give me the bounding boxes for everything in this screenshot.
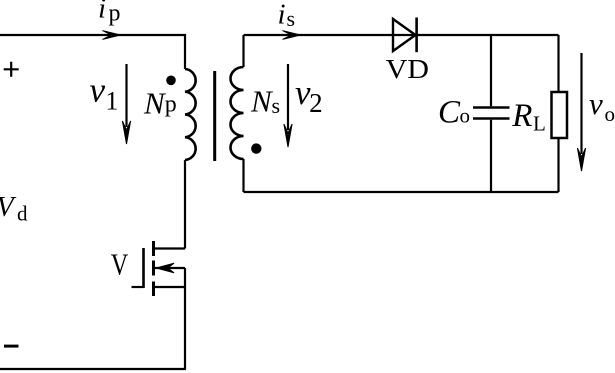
- arrow v_1: [125, 64, 127, 127]
- svg-text:o: o: [460, 103, 471, 127]
- svg-text:o: o: [605, 102, 615, 126]
- wire: bottom input rail: [0, 368, 186, 370]
- svg-text:C: C: [438, 94, 461, 130]
- polarity dot primary: [166, 76, 176, 86]
- wire: load branch upper: [557, 35, 559, 91]
- node - terminal: [4, 345, 19, 348]
- svg-text:i: i: [98, 0, 106, 25]
- wire: primary bottom to MOSFET drain: [184, 160, 186, 249]
- svg-text:VD: VD: [386, 54, 429, 84]
- svg-text:v: v: [90, 71, 106, 110]
- svg-text:L: L: [533, 112, 546, 136]
- diode VD triangle: [393, 19, 416, 51]
- transformer secondary winding Ns: [231, 67, 244, 159]
- MOSFET V body lead: [154, 267, 186, 269]
- wire: capacitor branch lower: [490, 120, 492, 192]
- current arrow i_p: [103, 31, 121, 40]
- svg-text:v: v: [589, 86, 603, 121]
- svg-text:1: 1: [105, 87, 118, 116]
- polarity dot secondary: [251, 143, 261, 153]
- svg-text:2: 2: [309, 88, 323, 118]
- svg-text:R: R: [511, 98, 532, 134]
- MOSFET V body arrow: [156, 263, 174, 273]
- MOSFET V gate lead: [132, 286, 144, 288]
- MOSFET V gate bar: [142, 248, 145, 288]
- arrow v_2: [287, 64, 289, 130]
- svg-text:V: V: [111, 246, 129, 281]
- node + terminal: [4, 62, 19, 77]
- MOSFET V source lead: [154, 286, 186, 288]
- svg-text:N: N: [250, 83, 274, 118]
- capacitor Co plates: [473, 108, 510, 119]
- wire: top input from + terminal to primary: [0, 35, 185, 69]
- MOSFET V channel segment body: [152, 261, 155, 276]
- svg-text:i: i: [278, 0, 286, 31]
- resistor R_L: [552, 92, 568, 138]
- svg-text:p: p: [165, 91, 177, 117]
- MOSFET V channel segment drain: [152, 241, 155, 256]
- svg-text:p: p: [109, 0, 121, 26]
- transformer primary winding Np: [185, 69, 196, 160]
- MOSFET V drain lead: [154, 247, 186, 249]
- wire: secondary top to load: [244, 35, 559, 67]
- MOSFET V channel segment source: [152, 282, 155, 297]
- arrow v_o: [580, 53, 582, 154]
- diode VD cathode bar: [415, 18, 418, 53]
- svg-text:s: s: [287, 6, 296, 31]
- wire: MOSFET source down to bottom rail: [184, 268, 186, 369]
- current arrow i_s: [283, 31, 301, 40]
- wire: load branch lower: [557, 139, 559, 192]
- svg-text:d: d: [17, 202, 28, 226]
- svg-text:N: N: [143, 86, 167, 121]
- svg-text:s: s: [272, 93, 281, 118]
- wire: capacitor branch upper: [490, 35, 492, 106]
- transformer core: [213, 71, 216, 161]
- wire: secondary bottom return: [244, 159, 559, 192]
